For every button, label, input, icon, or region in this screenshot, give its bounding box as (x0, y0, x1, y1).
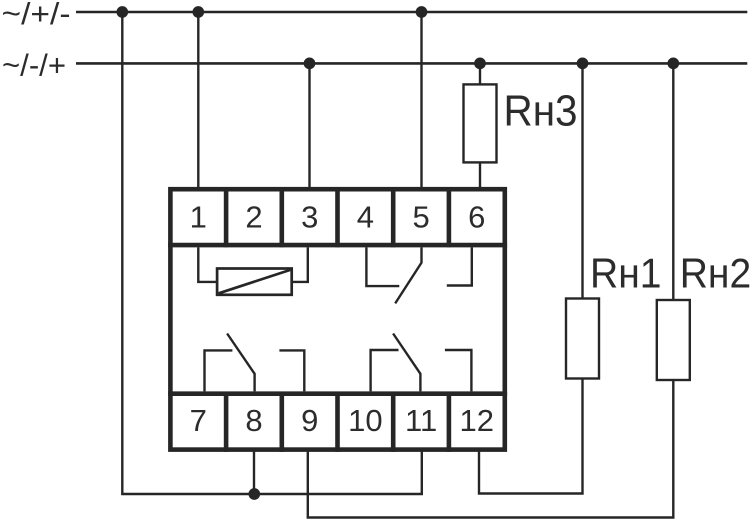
svg-text:10: 10 (348, 403, 382, 438)
svg-text:2: 2 (245, 200, 262, 235)
svg-text:11: 11 (405, 403, 437, 438)
svg-text:3: 3 (301, 200, 318, 235)
svg-text:6: 6 (468, 200, 485, 235)
svg-text:7: 7 (190, 403, 207, 438)
svg-text:Rн2: Rн2 (680, 250, 750, 297)
svg-text:~/+/-: ~/+/- (2, 0, 71, 31)
svg-text:12: 12 (460, 403, 494, 438)
svg-text:8: 8 (245, 403, 262, 438)
svg-text:4: 4 (357, 200, 374, 235)
svg-text:1: 1 (190, 200, 207, 235)
svg-text:5: 5 (412, 200, 429, 235)
svg-text:~/-/+: ~/-/+ (2, 48, 66, 83)
svg-text:Rн3: Rн3 (504, 87, 578, 136)
svg-text:Rн1: Rн1 (590, 250, 662, 297)
svg-text:9: 9 (301, 403, 318, 438)
